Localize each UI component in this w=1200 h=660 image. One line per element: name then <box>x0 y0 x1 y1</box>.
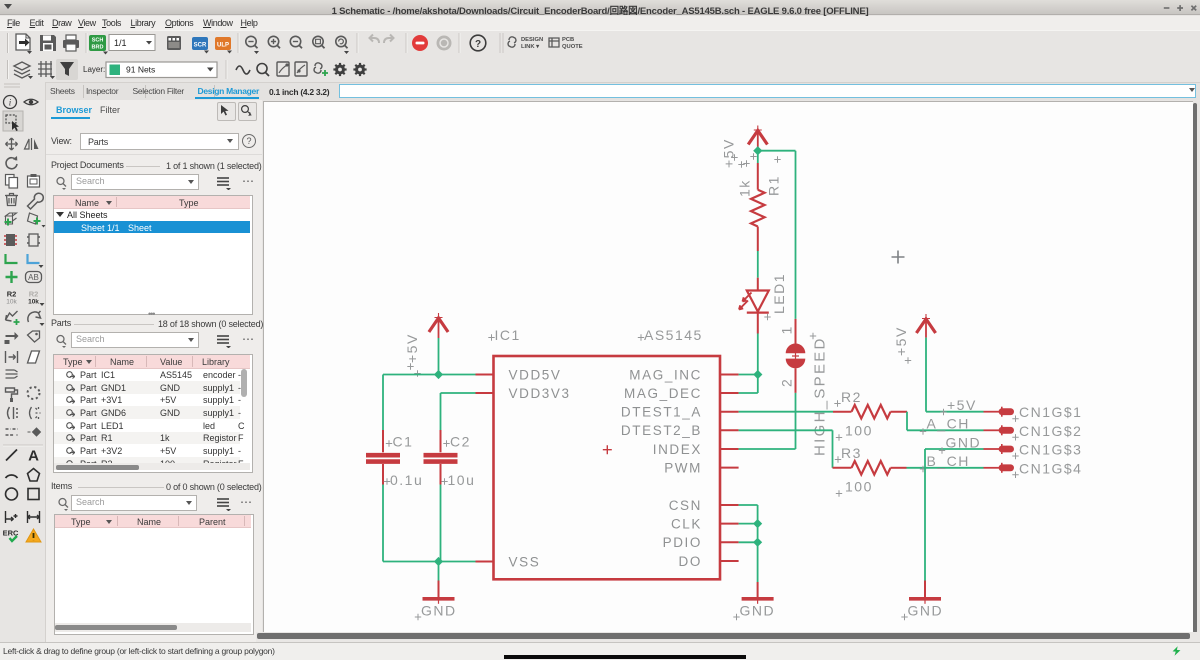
pin DO <box>679 554 739 569</box>
svg-text:C2: C2 <box>450 434 471 450</box>
svg-text:C1: C1 <box>393 434 414 450</box>
wire C2 bottom to VSS net <box>440 485 442 562</box>
svg-text:PWM: PWM <box>664 460 702 475</box>
capacitor C2 <box>424 430 476 488</box>
wire jumper pin2 to INDEX net <box>795 393 797 449</box>
status lightning <box>1171 646 1182 656</box>
label IC1 <box>488 327 520 343</box>
connector pin CN1G$1 <box>984 404 1083 422</box>
svg-text:+5V: +5V <box>893 326 909 356</box>
svg-text:?: ? <box>475 39 481 50</box>
svg-text:CSN: CSN <box>669 498 702 513</box>
svg-text:R1: R1 <box>766 175 782 196</box>
svg-text:IC1: IC1 <box>495 327 521 343</box>
window title bar <box>0 0 1200 15</box>
svg-text:DTEST1_A: DTEST1_A <box>621 405 702 420</box>
ground GND right <box>901 581 943 621</box>
wire C1 top drop <box>382 375 384 431</box>
svg-text:+5V: +5V <box>947 397 977 413</box>
jumper HIGH_SPEED pin 2 <box>779 378 795 387</box>
svg-text:SCR: SCR <box>194 43 207 49</box>
svg-text:1/1: 1/1 <box>114 38 127 48</box>
svg-text:MAG_DEC: MAG_DEC <box>624 386 702 401</box>
svg-text:100: 100 <box>845 423 873 439</box>
wire VDD5V net <box>383 374 476 376</box>
label B_CH <box>920 453 970 472</box>
svg-text:VDD3V3: VDD3V3 <box>509 386 571 401</box>
svg-text:LED1: LED1 <box>771 273 787 314</box>
svg-text:A: A <box>28 448 39 465</box>
label A_CH <box>920 416 970 435</box>
svg-text:CN1G$1: CN1G$1 <box>1019 404 1082 420</box>
svg-text:CLK: CLK <box>671 516 702 531</box>
IC IC1 (AS5145) body <box>494 356 721 579</box>
left dock panel <box>46 100 262 642</box>
svg-text:R2: R2 <box>841 389 862 405</box>
tab row <box>46 83 1200 100</box>
label GND net <box>939 434 981 453</box>
wire +5V to VDD5V junction <box>438 338 440 375</box>
toolbar row 1 <box>0 30 1200 58</box>
svg-text:ULP: ULP <box>217 43 229 49</box>
jumper HIGH_SPEED body <box>786 319 829 456</box>
wire B_CH net <box>907 467 984 469</box>
pin DTEST1_A <box>621 405 739 420</box>
wire MAG_DEC net <box>739 375 758 394</box>
svg-text:MAG_INC: MAG_INC <box>629 367 702 382</box>
svg-text:i: i <box>9 98 12 108</box>
pin VDD5V <box>476 367 562 382</box>
pin CLK <box>671 516 739 531</box>
svg-text:PDIO: PDIO <box>663 535 702 550</box>
ground GND center <box>733 582 775 620</box>
svg-text:AS5145: AS5145 <box>644 327 703 343</box>
pin DTEST2_B <box>621 423 739 438</box>
wire DTEST2_B net <box>739 430 833 468</box>
pin PDIO <box>663 535 739 550</box>
supply +3V2 (+5V symbol top) <box>721 126 768 169</box>
toolbar row 2 <box>0 57 1200 83</box>
Parts section <box>51 318 71 328</box>
svg-text:VDD5V: VDD5V <box>509 367 562 382</box>
svg-text:Layer:: Layer: <box>83 65 105 74</box>
status bar <box>0 642 1200 660</box>
svg-text:LINK ▾: LINK ▾ <box>521 44 540 50</box>
Items table <box>54 514 254 635</box>
svg-text:+5V: +5V <box>721 138 737 168</box>
wire GND net to CN1G$3 <box>925 449 984 581</box>
svg-text:DESIGN: DESIGN <box>521 37 543 43</box>
svg-text:91 Nets: 91 Nets <box>126 65 155 75</box>
wire MAG_INC net <box>739 374 758 376</box>
Project documents table <box>53 195 253 315</box>
svg-text:HIGH_SPEED: HIGH_SPEED <box>812 336 829 456</box>
Items section <box>51 481 72 491</box>
supply +5V right <box>893 314 936 364</box>
connector pin CN1G$4 <box>984 460 1083 478</box>
LED LED1 <box>739 273 787 334</box>
wire C1 bottom to VSS net <box>382 485 384 562</box>
left tool strip <box>0 82 46 642</box>
svg-text:VSS: VSS <box>509 554 541 569</box>
pin VDD3V3 <box>476 386 571 401</box>
svg-text:CN1G$4: CN1G$4 <box>1019 460 1082 476</box>
svg-text:10u: 10u <box>448 472 476 488</box>
Browser/Filter tabs <box>56 105 92 115</box>
pin CSN <box>669 498 739 513</box>
node VSS junction <box>434 557 443 566</box>
resistor R2 100 <box>833 389 907 441</box>
svg-text:AB: AB <box>28 273 39 282</box>
node VDD5V junction <box>434 370 443 379</box>
svg-text:0.1u: 0.1u <box>390 472 423 488</box>
svg-text:DTEST2_B: DTEST2_B <box>621 423 702 438</box>
wire CSN net <box>739 505 758 582</box>
connector pin CN1G$2 <box>984 423 1083 441</box>
svg-text:QUOTE: QUOTE <box>562 44 583 50</box>
canvas <box>263 101 1193 633</box>
jumper HIGH_SPEED pin 1 <box>779 325 795 334</box>
svg-text:DO: DO <box>679 554 702 569</box>
connector pin CN1G$3 <box>984 442 1083 460</box>
wire PDIO net <box>739 538 763 547</box>
wire VSS net <box>383 561 476 563</box>
wire R1 to LED1 <box>757 251 759 278</box>
svg-text:GND: GND <box>740 603 776 619</box>
svg-text:2: 2 <box>779 378 795 387</box>
View row <box>51 136 72 146</box>
wire A_CH net <box>907 412 984 431</box>
Project Documents section <box>51 160 124 170</box>
Parts table <box>53 354 253 473</box>
wire +5V to jumper pin1 <box>758 151 796 319</box>
wire DTEST1_A net <box>739 411 833 413</box>
resistor R1 1k <box>737 153 782 251</box>
svg-text:1k: 1k <box>737 179 753 197</box>
pin PWM <box>664 460 738 475</box>
supply +3V1 (+5V symbol left) <box>404 313 448 377</box>
svg-text:GND: GND <box>421 603 457 619</box>
wire INDEX net <box>739 448 796 450</box>
svg-text:GND: GND <box>908 603 944 619</box>
svg-text:CN1G$3: CN1G$3 <box>1019 442 1082 458</box>
mouse crosshair cursor <box>892 251 905 264</box>
svg-text:100: 100 <box>845 479 873 495</box>
pin VSS <box>476 554 541 569</box>
svg-text:SCH: SCH <box>92 38 104 44</box>
svg-text:GND: GND <box>946 434 982 450</box>
svg-text:R3: R3 <box>841 445 862 461</box>
svg-text:+5V: +5V <box>404 333 420 363</box>
label +5V net <box>940 397 977 415</box>
svg-text:A_CH: A_CH <box>927 416 970 432</box>
svg-text:PCB: PCB <box>562 37 574 43</box>
ground GND1 <box>415 562 457 621</box>
wire VDD3V3 net <box>441 393 476 430</box>
svg-text:CN1G$2: CN1G$2 <box>1019 423 1082 439</box>
wire +5V net to CN1G$1 <box>926 338 984 412</box>
svg-text:B_CH: B_CH <box>927 453 970 469</box>
svg-text:10k: 10k <box>6 299 17 306</box>
svg-text:R2: R2 <box>29 290 39 299</box>
value label AS5145 <box>638 327 703 343</box>
capacitor C1 <box>366 430 423 488</box>
svg-text:10k: 10k <box>28 299 39 306</box>
pin MAG_INC <box>629 367 738 382</box>
menu bar <box>0 16 1200 30</box>
pin INDEX <box>653 442 739 457</box>
svg-text:1: 1 <box>779 325 795 334</box>
wire CLK net <box>739 519 763 528</box>
node +5V top junction <box>753 146 762 163</box>
node MAG_INC junction <box>753 370 762 379</box>
svg-text:BRD: BRD <box>92 45 104 51</box>
pin MAG_DEC <box>624 386 739 401</box>
resistor R3 100 <box>833 445 907 497</box>
svg-text:INDEX: INDEX <box>653 442 702 457</box>
svg-text:R2: R2 <box>7 290 17 299</box>
wire LED1 to MAG_INC junction <box>757 334 759 375</box>
